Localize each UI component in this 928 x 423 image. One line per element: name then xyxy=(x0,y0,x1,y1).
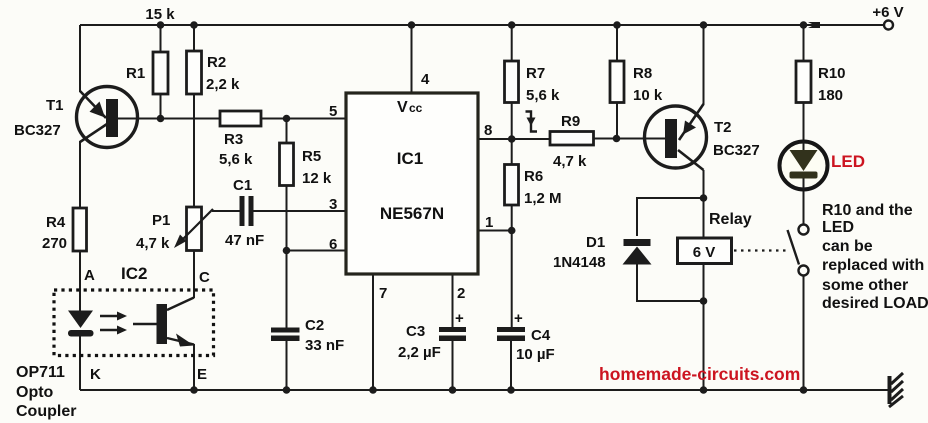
light arrows xyxy=(100,312,127,335)
svg-text:4,7 k: 4,7 k xyxy=(136,235,170,252)
op-amp IC1 box NE567N xyxy=(346,93,478,274)
wire C2 to bottom rail xyxy=(286,341,288,390)
svg-text:R3: R3 xyxy=(224,131,243,148)
resistor R4 xyxy=(42,208,87,252)
svg-text:BC327: BC327 xyxy=(713,142,760,159)
wire R10 top lead xyxy=(803,25,805,61)
svg-text:7: 7 xyxy=(379,285,387,302)
svg-text:T2: T2 xyxy=(714,119,732,136)
node bottom rail C4 xyxy=(507,386,515,394)
svg-text:D1: D1 xyxy=(586,234,605,251)
svg-text:desired LOAD: desired LOAD xyxy=(822,295,928,312)
opto coupler IC2 dotted box xyxy=(54,290,214,356)
wire T1 collector to R4 xyxy=(79,141,81,208)
node pin5 R5 xyxy=(283,115,291,123)
node bottom rail opto E xyxy=(190,386,198,394)
svg-text:V: V xyxy=(397,99,408,116)
ground symbol xyxy=(888,373,904,407)
wire R2 bottom to P1 top xyxy=(193,94,195,207)
capacitor C1 xyxy=(225,177,264,249)
switch contacts xyxy=(788,225,809,276)
wire R5 bottom to pin6 node to C2 xyxy=(286,186,288,328)
svg-text:R8: R8 xyxy=(633,65,652,82)
transistor T1 xyxy=(14,87,138,148)
svg-text:replaced with: replaced with xyxy=(822,257,924,274)
wire R8 bottom to T2 base node xyxy=(616,103,618,139)
wire pin 2 of IC1 to C3 xyxy=(452,274,454,327)
wire pin 4 of IC1 from rail xyxy=(411,25,413,93)
wire pin 8 of IC1 xyxy=(478,138,512,140)
node pin1 R6 C4 xyxy=(508,227,516,235)
svg-text:R9: R9 xyxy=(561,113,580,130)
wire opto LED cathode K to bottom rail xyxy=(79,336,81,390)
svg-text:6: 6 xyxy=(329,236,337,253)
opto phototransistor xyxy=(133,298,194,347)
svg-text:4: 4 xyxy=(421,71,430,88)
svg-text:IC1: IC1 xyxy=(397,149,423,168)
wire C3 to bottom rail xyxy=(452,341,454,390)
svg-text:12 k: 12 k xyxy=(302,170,332,187)
svg-text:+: + xyxy=(514,310,523,327)
svg-text:10 µF: 10 µF xyxy=(516,346,555,363)
svg-text:+6 V: +6 V xyxy=(872,4,903,21)
node bottom rail relay xyxy=(700,386,708,394)
node pin8 R7 R9 xyxy=(508,135,516,143)
wire R3 to pin 5 of IC1 xyxy=(261,118,346,120)
svg-text:5: 5 xyxy=(329,103,337,120)
svg-text:5,6 k: 5,6 k xyxy=(219,151,253,168)
node bottom rail pin7 xyxy=(369,386,377,394)
wire switch to bottom rail xyxy=(803,276,805,390)
svg-text:OP711: OP711 xyxy=(16,364,65,381)
svg-text:C3: C3 xyxy=(406,323,425,340)
wire bottom rail xyxy=(80,389,889,391)
wire T2 base xyxy=(617,138,667,140)
wire R5 top lead xyxy=(286,119,288,144)
svg-text:R10: R10 xyxy=(818,65,846,82)
wire opto emitter E to bottom rail xyxy=(193,344,195,390)
wire C4 to bottom rail xyxy=(510,341,512,390)
svg-text:+: + xyxy=(455,310,464,327)
wire R2 top lead xyxy=(193,25,195,51)
wire pin 6 of IC1 xyxy=(287,250,347,252)
svg-text:R4: R4 xyxy=(46,214,66,231)
wire R9 left lead xyxy=(512,138,550,140)
wire R4 to opto LED anode xyxy=(79,251,81,311)
svg-text:BC327: BC327 xyxy=(14,122,61,139)
node bottom rail switch xyxy=(800,386,808,394)
svg-text:Opto: Opto xyxy=(16,384,54,401)
resistor R9 xyxy=(550,113,594,170)
wire P1 wiper to C1 xyxy=(212,210,240,212)
svg-text:6 V: 6 V xyxy=(693,244,716,261)
signal edge arrow at pin 8 xyxy=(526,112,538,132)
wire top rail xyxy=(80,24,884,26)
node top rail R10 xyxy=(800,21,808,29)
diode D1 xyxy=(553,234,652,271)
svg-text:180: 180 xyxy=(818,87,843,104)
svg-text:R1: R1 xyxy=(126,65,145,82)
svg-text:33 nF: 33 nF xyxy=(305,337,344,354)
wire T2 emitter to top rail xyxy=(703,25,705,105)
supply terminal +6V xyxy=(872,4,903,30)
resistor R7 xyxy=(505,61,561,104)
note text block xyxy=(822,202,928,312)
wire R8 top lead xyxy=(616,25,618,61)
svg-text:R7: R7 xyxy=(526,65,545,82)
svg-text:1: 1 xyxy=(485,214,493,231)
resistor R1 xyxy=(126,52,168,94)
svg-text:10 k: 10 k xyxy=(633,87,663,104)
label OP711 Opto Coupler xyxy=(16,364,76,420)
svg-text:can be: can be xyxy=(822,238,873,255)
svg-text:5,6 k: 5,6 k xyxy=(526,87,560,104)
wire R1 top lead xyxy=(160,25,162,52)
wire R6 bottom to pin1 node to C4 xyxy=(511,205,513,328)
node top rail R2 xyxy=(190,21,198,29)
svg-text:2: 2 xyxy=(457,285,465,302)
svg-text:8: 8 xyxy=(484,122,492,139)
transistor T2 xyxy=(645,104,760,170)
wire R7 bottom to pin8 node xyxy=(511,103,513,165)
wire P1 bottom to opto collector C xyxy=(193,251,195,299)
node top rail R8 xyxy=(613,21,621,29)
svg-text:Coupler: Coupler xyxy=(16,403,76,420)
LED indicator xyxy=(780,142,866,190)
capacitor C4 xyxy=(497,310,555,363)
svg-text:15 k: 15 k xyxy=(145,6,175,23)
svg-text:270: 270 xyxy=(42,235,67,252)
resistor R8 xyxy=(610,61,663,104)
dotted link relay to switch xyxy=(734,249,788,251)
svg-text:C: C xyxy=(199,269,210,286)
capacitor C2 xyxy=(271,317,344,354)
wire left vertical emitter T1 xyxy=(79,25,81,92)
wire pin 7 of IC1 to rail xyxy=(372,274,374,390)
wire T2 collector down xyxy=(703,170,705,238)
svg-text:some other: some other xyxy=(822,277,908,294)
resistor R10 xyxy=(796,61,846,104)
capacitor C3 xyxy=(398,310,466,361)
node T2 base R8 R9 xyxy=(613,135,621,143)
wire pin 1 of IC1 xyxy=(478,230,512,232)
current arrow on top rail xyxy=(808,22,820,28)
svg-text:R10 and the: R10 and the xyxy=(822,202,913,219)
svg-text:3: 3 xyxy=(329,196,337,213)
svg-text:K: K xyxy=(90,366,101,383)
resistor R3 xyxy=(219,111,261,168)
wire R7 top lead xyxy=(511,25,513,61)
svg-text:1,2 M: 1,2 M xyxy=(524,190,562,207)
relay coil 6V xyxy=(678,211,752,264)
svg-text:NE567N: NE567N xyxy=(380,204,444,223)
svg-text:P1: P1 xyxy=(152,212,170,229)
svg-text:2,2 k: 2,2 k xyxy=(206,76,240,93)
resistor R2 xyxy=(187,51,241,94)
wire C1 to pin 3 of IC1 xyxy=(253,210,346,212)
svg-text:C4: C4 xyxy=(531,327,551,344)
wire T1 base to R3 and pin 5 xyxy=(118,118,219,120)
svg-text:C1: C1 xyxy=(233,177,252,194)
svg-text:T1: T1 xyxy=(46,97,64,114)
resistor R6 xyxy=(505,165,562,208)
wire relay bottom to rail xyxy=(703,264,705,391)
node top rail R1 xyxy=(157,21,165,29)
svg-text:homemade-circuits.com: homemade-circuits.com xyxy=(599,364,800,384)
svg-text:E: E xyxy=(197,366,207,383)
svg-text:LED: LED xyxy=(831,152,865,171)
svg-text:LED: LED xyxy=(822,219,854,236)
svg-text:Relay: Relay xyxy=(709,211,752,228)
resistor R5 xyxy=(280,143,332,187)
opto LED xyxy=(68,311,94,337)
node pin6 R5 xyxy=(283,247,291,255)
svg-text:47 nF: 47 nF xyxy=(225,232,264,249)
svg-text:cc: cc xyxy=(409,101,423,115)
potentiometer P1 xyxy=(136,207,213,252)
svg-text:IC2: IC2 xyxy=(121,264,147,283)
wire R9 right lead to T2 base node xyxy=(594,138,617,140)
wire D1 top bracket xyxy=(637,198,704,236)
wire R10 to LED xyxy=(803,103,805,142)
node D1 relay top xyxy=(700,194,708,202)
wire R1 bottom lead xyxy=(160,94,162,119)
node top rail R7 xyxy=(508,21,516,29)
svg-text:4,7 k: 4,7 k xyxy=(553,153,587,170)
svg-text:R5: R5 xyxy=(302,148,321,165)
svg-text:1N4148: 1N4148 xyxy=(553,254,606,271)
wire D1 bottom bracket xyxy=(637,264,704,301)
wire LED to switch xyxy=(803,190,805,225)
node bottom rail C3 xyxy=(449,386,457,394)
node top rail pin4 xyxy=(408,21,416,29)
node T1 base R1 xyxy=(157,115,165,123)
svg-text:C2: C2 xyxy=(305,317,324,334)
svg-text:R6: R6 xyxy=(524,168,543,185)
svg-text:R2: R2 xyxy=(207,54,226,71)
svg-text:2,2 µF: 2,2 µF xyxy=(398,344,441,361)
node top rail T2 emitter xyxy=(700,21,708,29)
node bottom rail C2 xyxy=(283,386,291,394)
svg-text:A: A xyxy=(84,267,95,284)
node D1 relay bottom xyxy=(700,297,708,305)
